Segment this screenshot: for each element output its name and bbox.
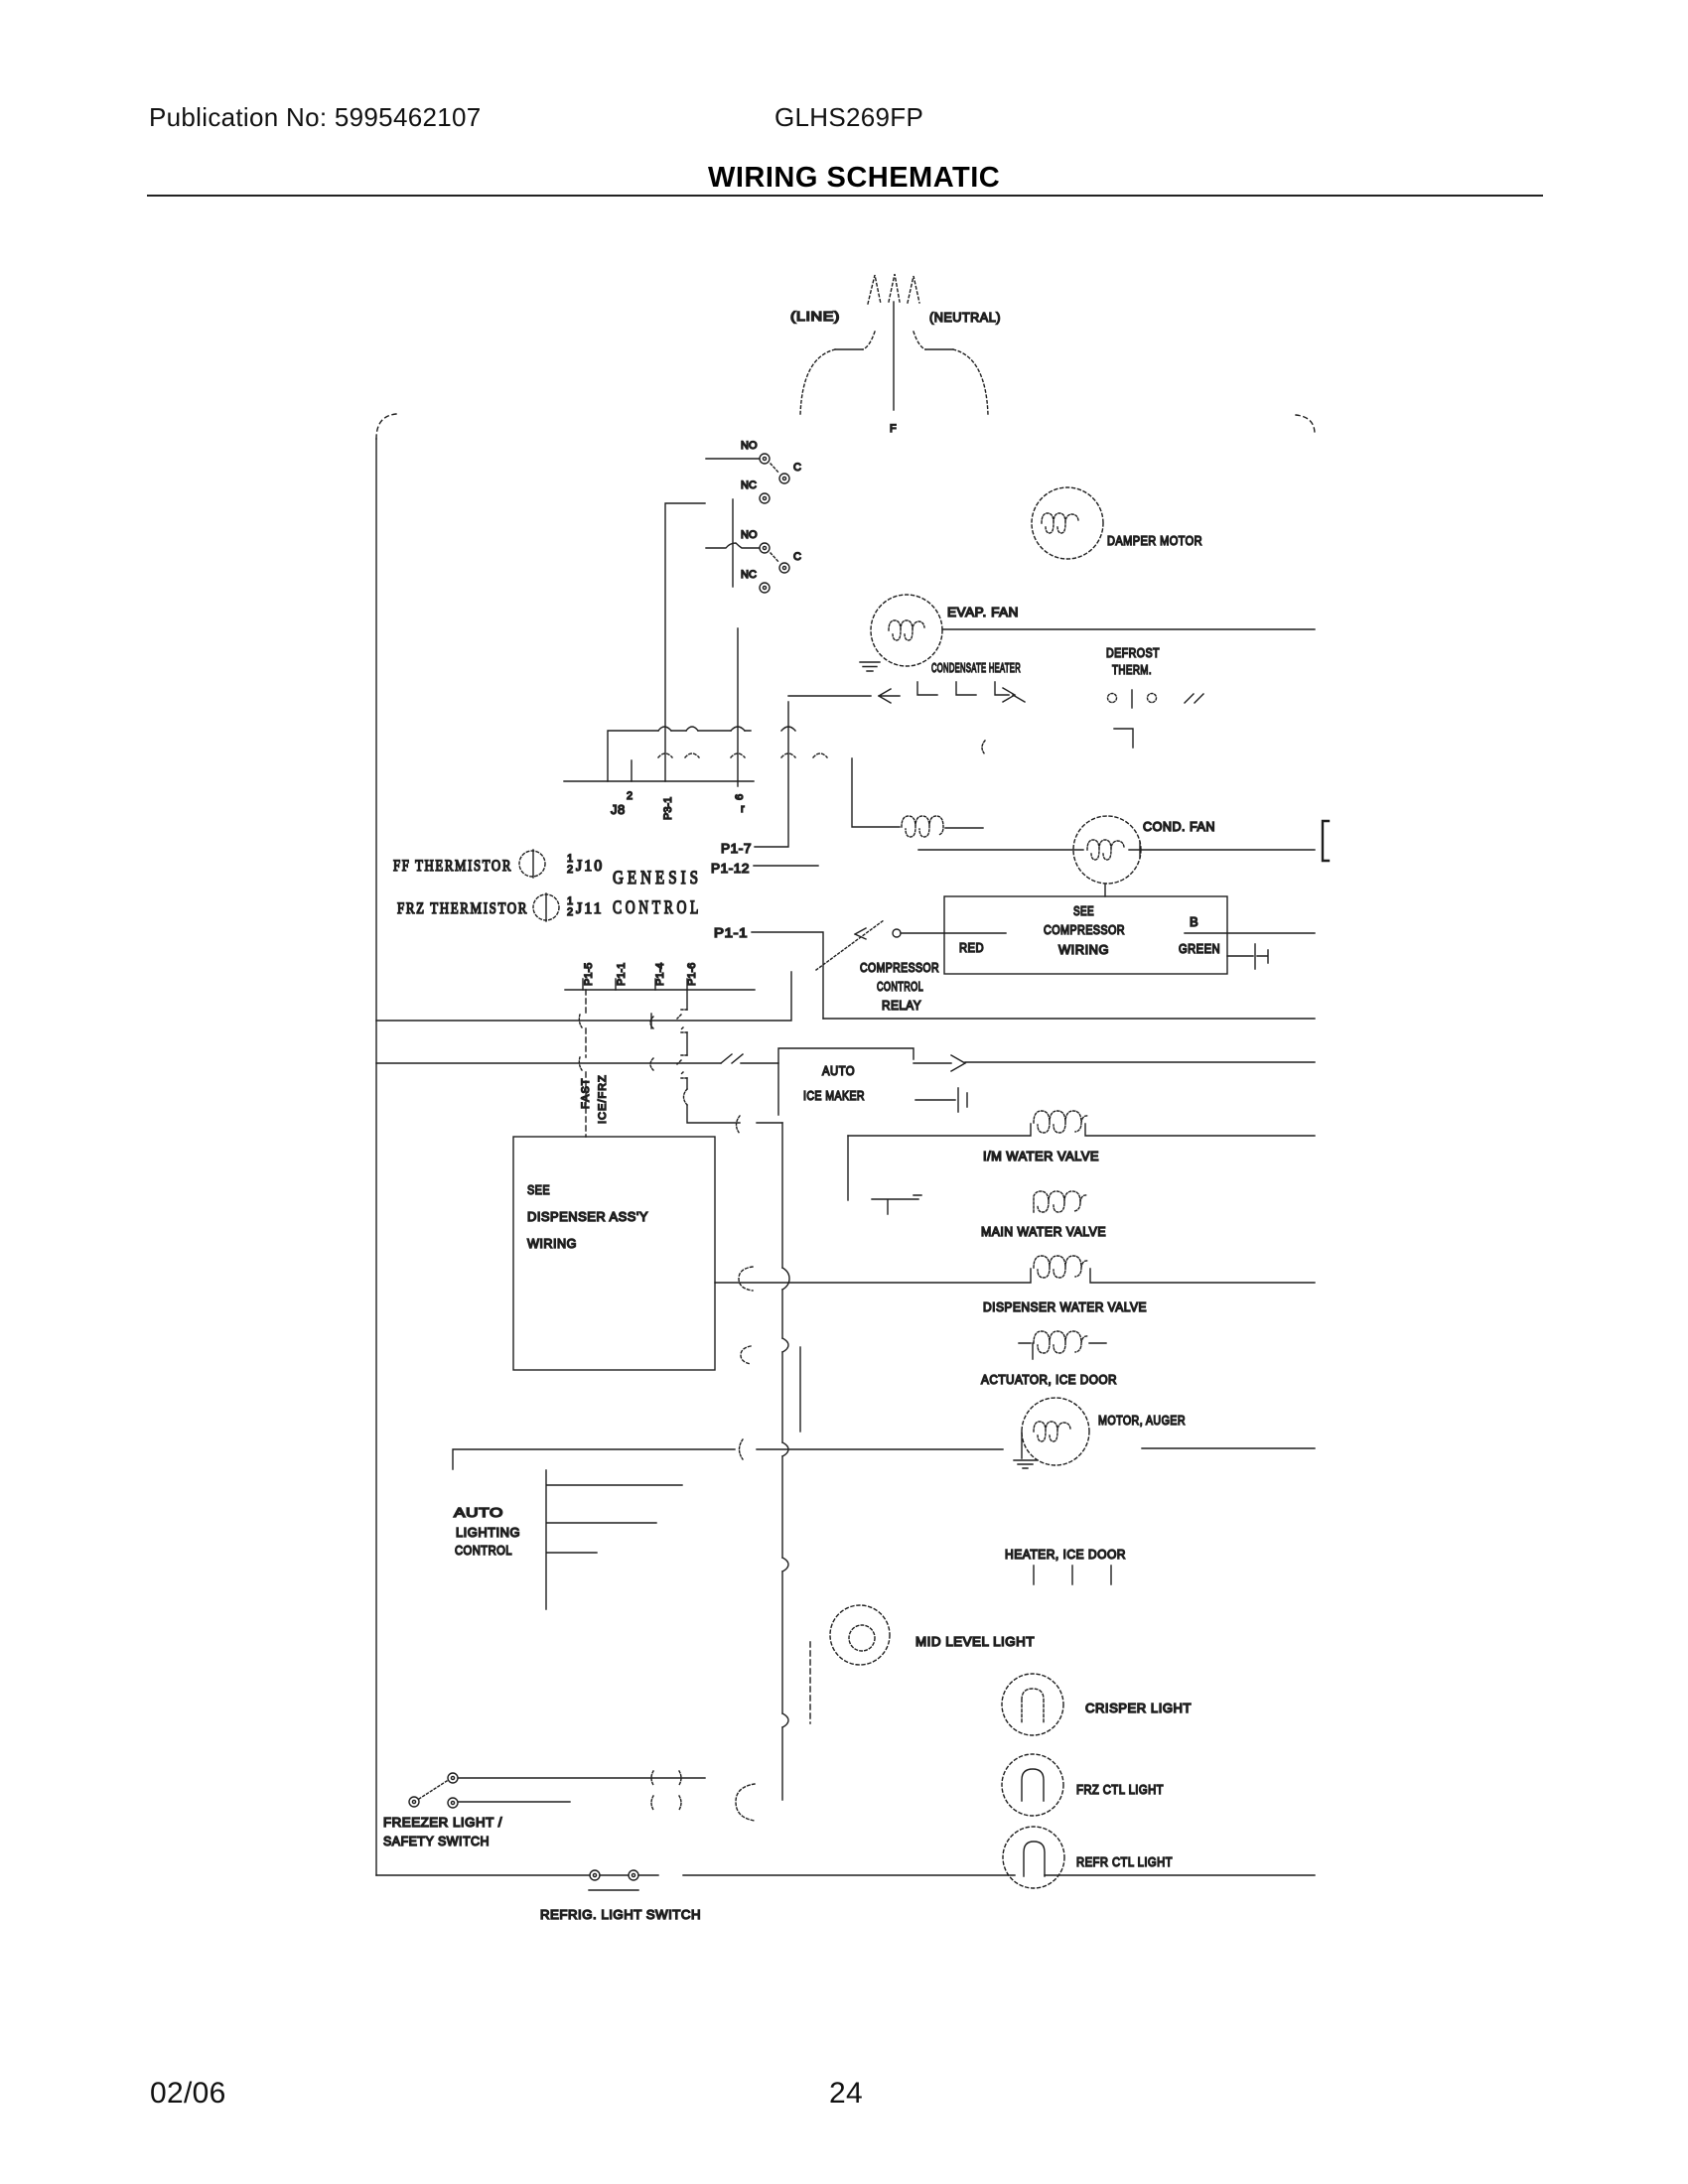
harness bumps <box>782 1268 789 1727</box>
lamp frz ctl light <box>1002 1754 1063 1816</box>
svg-text:(LINE): (LINE) <box>790 309 840 324</box>
svg-text:B: B <box>1190 914 1198 929</box>
fast ice crossing arcs <box>579 1015 582 1070</box>
defrost thermostat terminals <box>1108 694 1117 703</box>
svg-text:P1-5: P1-5 <box>583 963 595 986</box>
svg-text:J8: J8 <box>611 802 626 817</box>
svg-text:SEE: SEE <box>1073 903 1094 918</box>
footer date <box>150 2077 226 2111</box>
connector hop arcs J8 <box>658 727 745 731</box>
switch S2 arm <box>771 553 779 563</box>
svg-text:AUTO: AUTO <box>822 1063 855 1078</box>
svg-text:THERM.: THERM. <box>1112 662 1152 677</box>
svg-text:J11: J11 <box>576 900 604 917</box>
coil main water valve <box>1034 1191 1087 1212</box>
wire auger right <box>1142 1447 1315 1449</box>
connector hop arc at P1-7 drop <box>781 727 795 731</box>
wire bus B left <box>376 1062 721 1064</box>
connector P1 bus <box>565 989 755 991</box>
svg-text:CONDENSATE HEATER: CONDENSATE HEATER <box>931 660 1021 675</box>
svg-text:P1-12: P1-12 <box>711 861 750 876</box>
run capacitor <box>1227 944 1268 969</box>
switch S2 NC contact <box>760 583 770 593</box>
svg-text:F: F <box>890 423 897 435</box>
drop connector arcs <box>684 1089 688 1105</box>
svg-text:6: 6 <box>734 794 746 800</box>
svg-text:NC: NC <box>741 479 757 491</box>
switch S1 feed wire <box>706 458 759 460</box>
plug prong right <box>908 276 919 303</box>
svg-text:MOTOR, AUGER: MOTOR, AUGER <box>1098 1413 1186 1428</box>
wire green to right edge <box>1185 932 1315 934</box>
plug body right curve <box>914 332 925 349</box>
relay arrowhead <box>855 928 866 939</box>
svg-text:COMPRESSOR: COMPRESSOR <box>1044 922 1125 937</box>
freezer switch arm <box>419 1781 447 1799</box>
harness vertical with connector bumps <box>781 1123 783 1800</box>
arrow connector right <box>1003 688 1025 702</box>
defrost thermostat bar <box>1131 690 1133 708</box>
svg-text:REFR CTL LIGHT: REFR CTL LIGHT <box>1076 1854 1173 1869</box>
wire bus A right <box>823 1018 1315 1020</box>
svg-text:P1-4: P1-4 <box>654 963 666 986</box>
wire P1-12 stub <box>754 865 818 867</box>
break marks <box>1185 694 1203 703</box>
svg-text:CONTROL: CONTROL <box>455 1543 512 1558</box>
switch S2 NO contact <box>760 543 770 553</box>
svg-text:P1-6: P1-6 <box>686 963 698 986</box>
drop crossing marks <box>677 1010 687 1078</box>
title underline <box>147 195 1543 197</box>
lamp mid level light <box>830 1605 890 1665</box>
svg-text:GENESIS: GENESIS <box>613 868 702 888</box>
box see compressor wiring <box>944 896 1227 974</box>
motor cond fan <box>1073 816 1141 884</box>
svg-text:I/M WATER VALVE: I/M WATER VALVE <box>983 1149 1099 1163</box>
svg-text:NO: NO <box>741 529 758 541</box>
icemaker thermostat <box>915 1088 967 1112</box>
svg-text:REFRIG. LIGHT SWITCH: REFRIG. LIGHT SWITCH <box>540 1907 701 1922</box>
page connector bracket <box>1323 821 1329 861</box>
svg-text:CONTROL: CONTROL <box>877 979 923 994</box>
arrow connector left <box>879 689 900 703</box>
svg-text:GREEN: GREEN <box>1179 941 1220 956</box>
border bottom edge <box>376 1874 1315 1876</box>
wire dispenser valve right <box>1090 1269 1315 1283</box>
lamp crisper light <box>1002 1674 1063 1735</box>
svg-text:CRISPER LIGHT: CRISPER LIGHT <box>1085 1701 1192 1715</box>
svg-text:SAFETY SWITCH: SAFETY SWITCH <box>383 1834 490 1848</box>
wire fast ice dashed <box>585 990 587 1137</box>
svg-text:ICE MAKER: ICE MAKER <box>803 1088 865 1103</box>
wire evap fan to right edge <box>942 628 1315 630</box>
wire P1-7 riser <box>755 702 788 847</box>
condensate loop hook 3 <box>995 682 1009 695</box>
border top-left corner <box>376 414 396 439</box>
svg-text:WIRING: WIRING <box>1058 942 1109 957</box>
svg-text:J10: J10 <box>576 858 604 875</box>
coil defrost heater <box>902 816 943 837</box>
pin stubs P1 <box>583 979 687 990</box>
wire cond fan right <box>1129 849 1315 851</box>
wire cond fan left <box>918 849 1083 851</box>
compressor relay arm <box>816 920 884 970</box>
crossing ticks on bus A <box>650 1014 652 1028</box>
svg-text:RELAY: RELAY <box>882 998 921 1013</box>
svg-text:FRZ THERMISTOR: FRZ THERMISTOR <box>397 900 528 917</box>
harness arcs <box>739 1267 753 1364</box>
harness arc <box>736 1784 755 1821</box>
title <box>708 162 1000 195</box>
plug prong center <box>889 274 900 302</box>
svg-text:EVAP. FAN: EVAP. FAN <box>947 605 1019 619</box>
wire heater coil out <box>945 827 983 829</box>
plug prong left <box>868 275 881 304</box>
wire dispenser valve left <box>715 1269 1031 1283</box>
svg-text:C: C <box>793 551 801 563</box>
svg-text:COMPRESSOR: COMPRESSOR <box>860 960 939 975</box>
svg-text:ICE/FRZ: ICE/FRZ <box>597 1074 609 1124</box>
svg-text:SEE: SEE <box>527 1182 550 1197</box>
pin stub 2 <box>631 760 633 781</box>
wire auger left <box>453 1449 1003 1469</box>
svg-text:P1-1: P1-1 <box>714 925 748 940</box>
junction stub box top <box>1104 884 1106 896</box>
connector J8 bus <box>564 780 754 782</box>
connector J8 jumper wire <box>608 731 751 781</box>
motor damper <box>1032 487 1103 559</box>
svg-text:NO: NO <box>741 440 758 452</box>
wire bus B to icemaker <box>741 1062 778 1064</box>
wire defrost feed <box>788 695 871 697</box>
condensate loop hook 1 <box>917 682 937 695</box>
wire icemaker out with arrow <box>914 1055 1315 1071</box>
svg-text:2: 2 <box>567 864 573 876</box>
condensate loop hook 2 <box>956 682 976 695</box>
refrig light switch contacts <box>590 1870 600 1880</box>
svg-text:HEATER, ICE DOOR: HEATER, ICE DOOR <box>1005 1547 1126 1562</box>
svg-text:NC: NC <box>741 569 757 581</box>
junction tick <box>1139 842 1141 858</box>
footer page number <box>829 2077 863 2111</box>
heater ice door pins <box>1034 1566 1111 1584</box>
svg-text:r: r <box>741 803 745 815</box>
wire defrost elbow <box>1114 729 1133 748</box>
switch S2 common contact <box>779 563 789 573</box>
switch S2 feed wire <box>706 543 759 548</box>
connector socket arcs row <box>658 753 827 757</box>
coil dispenser water valve <box>1034 1256 1088 1278</box>
wire S2 to connector <box>737 628 739 786</box>
connector arcs freezer wires <box>651 1771 681 1810</box>
header: model number <box>774 102 923 133</box>
relay contact <box>893 929 901 937</box>
svg-text:2: 2 <box>627 790 633 802</box>
svg-text:WIRING: WIRING <box>527 1236 577 1251</box>
box dispenser assy <box>513 1137 715 1370</box>
wire freezer switch top <box>459 1777 705 1779</box>
wire im valve right <box>1085 1124 1315 1136</box>
svg-text:P1-7: P1-7 <box>721 841 752 856</box>
switch S1 common contact <box>779 474 789 483</box>
refrig switch underline <box>589 1889 638 1891</box>
border left edge <box>375 439 377 1875</box>
wire P1-6 drop <box>687 990 782 1123</box>
wire valve feed drop <box>847 1136 849 1200</box>
coil im water valve <box>1034 1111 1088 1133</box>
elbow hop arc <box>737 1116 741 1134</box>
dashed drop mid light <box>809 1642 811 1723</box>
switch S1 NC contact <box>760 493 770 503</box>
svg-text:DISPENSER ASS'Y: DISPENSER ASS'Y <box>527 1209 648 1224</box>
icemaker ground tee <box>872 1195 921 1214</box>
wire actuator <box>1019 1343 1106 1359</box>
box auto ice maker <box>778 1048 914 1115</box>
svg-text:P3-1: P3-1 <box>662 797 674 820</box>
motor evap fan <box>871 595 942 666</box>
svg-text:DAMPER MOTOR: DAMPER MOTOR <box>1107 533 1202 548</box>
svg-text:CONTROL: CONTROL <box>613 897 702 918</box>
svg-text:ACTUATOR, ICE DOOR: ACTUATOR, ICE DOOR <box>981 1372 1117 1387</box>
wire relay to compressor <box>902 932 1006 934</box>
motor auger <box>1022 1398 1089 1465</box>
svg-text:C: C <box>793 462 801 474</box>
svg-text:RED: RED <box>959 940 984 955</box>
svg-text:MAIN WATER VALVE: MAIN WATER VALVE <box>981 1224 1106 1239</box>
svg-text:DISPENSER WATER VALVE: DISPENSER WATER VALVE <box>983 1299 1147 1314</box>
coil actuator ice door <box>1034 1331 1088 1353</box>
wire bus A left <box>376 972 791 1021</box>
svg-text:FREEZER LIGHT /: FREEZER LIGHT / <box>383 1815 502 1830</box>
auger hop arc <box>740 1439 744 1459</box>
lamp refr ctl light <box>1003 1827 1064 1888</box>
switch link bar <box>732 499 734 587</box>
svg-text:2: 2 <box>567 906 573 918</box>
svg-text:LIGHTING: LIGHTING <box>456 1525 520 1540</box>
svg-text:COND. FAN: COND. FAN <box>1143 819 1215 834</box>
freezer light safety switch <box>448 1773 458 1783</box>
header: publication number <box>149 102 482 133</box>
switch break marks bus B <box>721 1054 743 1063</box>
switch S1 NO contact <box>760 454 770 464</box>
svg-text:MID LEVEL LIGHT: MID LEVEL LIGHT <box>915 1634 1035 1649</box>
stub wire <box>799 1347 801 1432</box>
ground evap <box>860 662 880 671</box>
wire freezer switch bottom <box>459 1801 570 1803</box>
auger ground <box>1014 1432 1037 1468</box>
svg-text:(NEUTRAL): (NEUTRAL) <box>929 310 1001 325</box>
svg-text:AUTO: AUTO <box>454 1505 503 1520</box>
wire elbow to bus <box>665 503 705 781</box>
wire im valve left <box>848 1124 1031 1136</box>
svg-text:P1-1: P1-1 <box>616 963 628 986</box>
svg-text:FRZ CTL LIGHT: FRZ CTL LIGHT <box>1076 1782 1164 1797</box>
svg-text:FAST: FAST <box>580 1077 592 1109</box>
svg-text:FF THERMISTOR: FF THERMISTOR <box>393 858 512 875</box>
switch S1 arm <box>771 464 779 474</box>
connector arc mark <box>982 741 985 754</box>
wire plug center lead <box>893 302 895 410</box>
border top-right corner <box>1296 415 1315 434</box>
wire P1-1 elbow <box>752 932 823 1019</box>
lighting control comb <box>546 1470 682 1609</box>
plug body left curve <box>863 332 875 349</box>
svg-text:DEFROST: DEFROST <box>1106 645 1160 660</box>
wire heater coil feed <box>852 758 900 827</box>
